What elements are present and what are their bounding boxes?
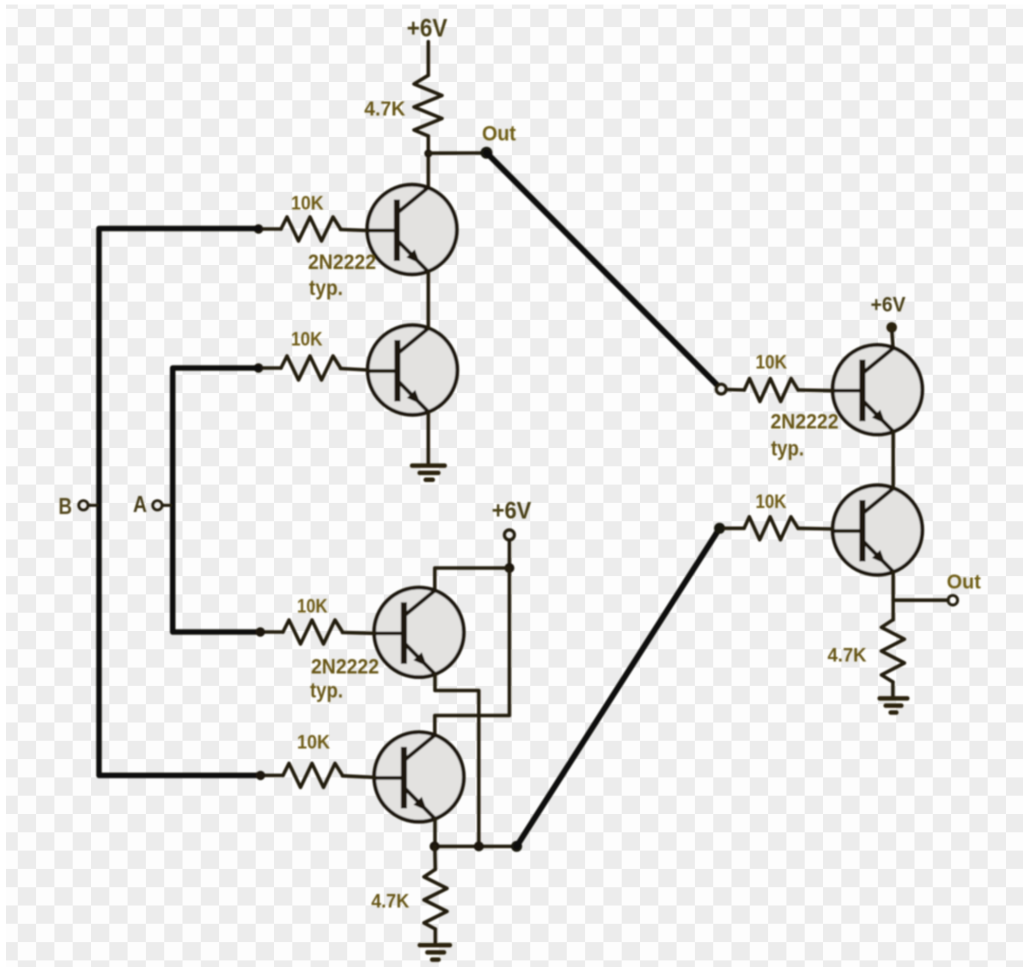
transistor Q2 2N2222 (below Q1) bbox=[368, 325, 458, 415]
svg-text:+6V: +6V bbox=[492, 498, 532, 525]
terminal +6V (right gate) bbox=[886, 322, 897, 333]
wire to R9 bbox=[891, 600, 895, 620]
wire A terminal to vertical run bbox=[163, 504, 171, 507]
wire Q6 emitter down bbox=[891, 572, 895, 600]
node R5 input bbox=[256, 771, 265, 780]
svg-text:10K: 10K bbox=[291, 193, 324, 215]
svg-text:Out: Out bbox=[947, 572, 981, 594]
node R3 input bbox=[254, 363, 263, 372]
wire Q5 emitter to Q6 collector bbox=[891, 432, 895, 488]
wire node to Q3 collector (left then down) bbox=[435, 568, 510, 590]
svg-text:2N2222: 2N2222 bbox=[308, 251, 376, 274]
wire R5 to Q4 base bbox=[343, 776, 375, 778]
node right gate lower input bbox=[714, 523, 725, 534]
resistor R7 10K (Q5 base) bbox=[744, 379, 798, 402]
resistor R8 10K (Q6 base) bbox=[744, 517, 798, 540]
resistor R1 4.7K (collector load, left gate) bbox=[414, 75, 442, 136]
transistor Q4 2N2222 (bottom gate lower) bbox=[374, 732, 464, 822]
svg-text:4.7K: 4.7K bbox=[828, 645, 867, 667]
wire R2 to Q1 base bbox=[341, 230, 368, 231]
svg-text:B: B bbox=[59, 493, 73, 519]
wire B terminal to vertical run bbox=[89, 504, 98, 507]
wire R6 to ground bbox=[434, 929, 438, 943]
wire A-branch node to R4 bbox=[262, 630, 283, 634]
wire R8 to Q6 base bbox=[798, 527, 833, 531]
resistor R3 10K (Q2 base) bbox=[281, 356, 341, 380]
svg-text:10K: 10K bbox=[756, 491, 787, 513]
wire B-branch node to R5 bbox=[262, 774, 283, 778]
wire Q3 emitter jog to common emitter rail bbox=[435, 674, 479, 846]
wire node to Out node bbox=[428, 151, 486, 155]
svg-text:4.7K: 4.7K bbox=[364, 99, 406, 121]
resistor R2 10K (Q1 base) bbox=[281, 217, 341, 241]
transistor Q3 2N2222 (bottom gate upper) bbox=[374, 588, 464, 678]
node bottom gate output bbox=[511, 841, 522, 852]
svg-text:2N2222: 2N2222 bbox=[311, 656, 379, 679]
svg-text:Out: Out bbox=[482, 122, 516, 146]
wire terminal to R7 bbox=[727, 388, 745, 392]
svg-text:typ.: typ. bbox=[771, 438, 804, 461]
wire +6V terminal to node bbox=[508, 540, 512, 568]
ground GND2 (bottom gate) bbox=[420, 945, 450, 960]
wire R3 to Q2 base bbox=[341, 369, 368, 371]
wire +6V to R1 bbox=[427, 42, 431, 76]
wire emitter to Out terminal bbox=[893, 598, 948, 602]
node Out (left gate output) bbox=[481, 147, 493, 159]
wire +6V to Q5 collector bbox=[892, 333, 893, 348]
wire Q1 emitter to Q2 collector bbox=[427, 272, 431, 328]
transistor Q5 2N2222 (right gate upper) bbox=[833, 345, 923, 435]
wire R1 to Q1 collector bbox=[427, 136, 431, 189]
transistor Q6 2N2222 (right gate lower) bbox=[833, 485, 923, 575]
svg-text:+6V: +6V bbox=[407, 15, 448, 43]
wire node A-branch to R3 bbox=[260, 366, 281, 370]
node R2 input bbox=[254, 224, 263, 233]
svg-text:typ.: typ. bbox=[310, 680, 343, 703]
svg-text:+6V: +6V bbox=[871, 293, 907, 317]
svg-text:10K: 10K bbox=[291, 329, 323, 351]
node junction below R1 bbox=[424, 150, 432, 158]
wire thick diagonal Out to right gate upper input bbox=[487, 153, 717, 385]
wire R7 to Q5 base bbox=[798, 388, 833, 392]
wire node B-branch to R2 bbox=[260, 227, 281, 231]
svg-text:10K: 10K bbox=[297, 596, 328, 618]
svg-text:A: A bbox=[133, 491, 147, 517]
wire node to R8 bbox=[725, 527, 744, 531]
wire R9 to ground bbox=[891, 682, 895, 697]
wire common emitter rail bbox=[435, 845, 517, 849]
wire thick input B run (top corner, vertical, bottom corner) bbox=[99, 229, 261, 776]
wire Q2 emitter to ground bbox=[427, 412, 431, 464]
wire thick diagonal bottom gate output to right gate lower input bbox=[517, 528, 720, 846]
wire thick input A run (top corner, vertical, bottom corner) bbox=[173, 368, 261, 632]
resistor R6 4.7K (bottom gate emitter load) bbox=[424, 869, 447, 929]
ground GND1 (below Q2) bbox=[412, 466, 445, 480]
wire node down right side to Q4 collector bbox=[435, 568, 510, 735]
svg-text:10K: 10K bbox=[297, 732, 330, 754]
terminal right gate upper input (open circle) bbox=[716, 384, 726, 394]
terminal +6V (bottom gate, open circle) bbox=[504, 530, 514, 540]
svg-text:10K: 10K bbox=[756, 352, 788, 374]
svg-text:typ.: typ. bbox=[309, 277, 343, 300]
node +6V distribution (bottom gate) bbox=[504, 563, 514, 573]
node R4 input bbox=[256, 627, 265, 636]
resistor R9 4.7K (right gate emitter load) bbox=[881, 620, 904, 682]
resistor R4 10K (Q3 base) bbox=[283, 620, 343, 644]
terminal Out (right gate) bbox=[948, 595, 958, 605]
resistor R5 10K (Q4 base) bbox=[283, 763, 343, 787]
node Q3 emitter rail bbox=[474, 841, 484, 851]
node Q4 emitter bbox=[430, 841, 440, 851]
wire node to R6 bbox=[433, 846, 437, 869]
wire Q4 emitter to common node bbox=[433, 819, 437, 846]
svg-text:2N2222: 2N2222 bbox=[771, 411, 839, 434]
ground GND3 (right gate) bbox=[880, 698, 908, 712]
transistor Q1 2N2222 (top left) bbox=[367, 185, 457, 275]
wire R4 to Q3 base bbox=[343, 631, 375, 635]
svg-text:4.7K: 4.7K bbox=[371, 891, 409, 913]
